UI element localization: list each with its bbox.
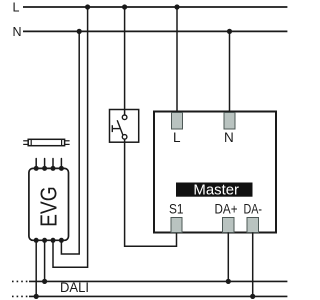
svg-text:EVG: EVG bbox=[36, 186, 62, 227]
wire L bus bbox=[23, 6, 287, 8]
switch actuator bbox=[112, 125, 120, 132]
wire L bus to Master L terminal bbox=[176, 7, 178, 114]
wire EVG pin 2 to DALI plus bus bbox=[42, 240, 47, 284]
node N bus x=79.2 bbox=[77, 29, 82, 34]
EVG pin 3 stub bbox=[51, 159, 56, 171]
DALI minus bus bbox=[12, 295, 287, 297]
svg-text:N: N bbox=[13, 25, 22, 39]
lamp fluorescent tube bbox=[23, 139, 69, 145]
wire N bus to EVG pin 4 bbox=[61, 31, 79, 254]
switch bottom contact bbox=[122, 135, 127, 140]
DALI plus bus bbox=[12, 280, 287, 282]
svg-text:N: N bbox=[224, 130, 234, 145]
svg-text:S1: S1 bbox=[169, 202, 184, 217]
wire DA+ terminal to DALI plus bus bbox=[226, 233, 231, 285]
Master label band bbox=[176, 183, 253, 199]
wire switch to Master S1 terminal bbox=[125, 139, 177, 246]
node L bus x=177 bbox=[174, 4, 179, 9]
switch lever bbox=[117, 120, 123, 135]
switch S1 pushbutton box bbox=[110, 110, 139, 143]
wire DA- terminal to DALI minus bus bbox=[250, 233, 255, 300]
wire N bus bbox=[23, 30, 287, 32]
EVG bottom pin nodes bbox=[34, 238, 64, 243]
Master DA- terminal bbox=[247, 218, 259, 233]
Master control unit box bbox=[154, 112, 276, 233]
wire L bus to switch bbox=[124, 7, 126, 115]
svg-text:Master: Master bbox=[193, 183, 239, 199]
switch top contact bbox=[122, 115, 127, 120]
ballast EVG box bbox=[29, 168, 69, 240]
EVG pin 2 stub bbox=[42, 159, 47, 171]
EVG pin 1 stub bbox=[34, 159, 39, 171]
Master S1 terminal bbox=[171, 218, 182, 233]
svg-text:L: L bbox=[13, 0, 20, 14]
EVG pin 4 stub bbox=[59, 159, 64, 171]
node N bus x=229.5 bbox=[227, 29, 232, 34]
wire N bus to Master N terminal bbox=[229, 31, 231, 114]
svg-text:DALI: DALI bbox=[60, 280, 89, 295]
Master N terminal bbox=[224, 113, 235, 130]
svg-text:DA+: DA+ bbox=[215, 202, 238, 217]
Master L terminal bbox=[172, 113, 183, 130]
Master DA+ terminal bbox=[223, 218, 235, 233]
wire L bus to EVG pin 3 bbox=[53, 7, 88, 267]
wire EVG pin 1 to DALI minus bus bbox=[34, 240, 39, 299]
svg-text:DA-: DA- bbox=[244, 202, 263, 217]
svg-text:L: L bbox=[173, 130, 181, 145]
node L bus x=87.6 bbox=[85, 4, 90, 9]
node L bus x=124.6 bbox=[122, 4, 127, 9]
